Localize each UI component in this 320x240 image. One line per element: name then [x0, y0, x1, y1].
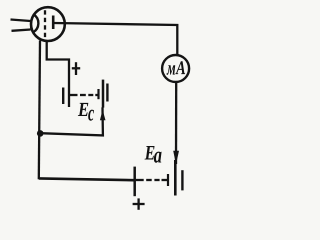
label Ea — [145, 146, 162, 163]
battery Ea tall plate — [174, 160, 177, 196]
return wire from Ec to cathode junction — [40, 107, 103, 135]
triode tube envelope — [31, 7, 65, 41]
battery Ea dash 2 — [154, 179, 159, 181]
milliammeter mA circle — [162, 55, 189, 82]
battery Ec stub left — [69, 94, 78, 96]
battery Ec dash 1 — [80, 94, 86, 96]
battery Ea medium plate — [181, 170, 183, 190]
plus sign near Ec battery — [72, 62, 80, 75]
battery Ea dash 1 — [146, 179, 152, 181]
filament lead upper — [11, 20, 31, 22]
battery Ec tick plate — [97, 89, 99, 99]
label Ec — [78, 103, 94, 121]
battery Ea stub right — [162, 179, 169, 181]
battery Ea left long plate — [133, 167, 136, 197]
battery Ec tall plate — [102, 80, 105, 108]
battery Ea stub left — [136, 179, 144, 181]
battery Ea tall plate upper continuation — [174, 160, 176, 164]
bottom wire to battery Ea — [39, 178, 134, 180]
current arrow (down) on anode wire — [173, 151, 179, 165]
label mA inside meter — [167, 61, 186, 75]
battery Ec dash 2 — [88, 94, 93, 96]
battery Ec short plate (left) — [62, 88, 64, 105]
cathode wire down — [39, 41, 40, 180]
battery Ec medium plate — [106, 84, 108, 102]
plus sign under Ea battery — [133, 198, 145, 209]
filament (cathode arc) — [33, 14, 39, 32]
filament lead lower — [12, 30, 31, 31]
battery Ea tick plate — [167, 174, 169, 186]
battery Ec stub right — [95, 94, 98, 96]
grid wire to battery Ec — [47, 42, 69, 108]
anode plate — [52, 16, 55, 30]
anode lead wire to top-right — [54, 23, 177, 54]
current arrow (up) on Ec return wire — [100, 110, 106, 120]
wire meter to battery Ea — [175, 83, 177, 164]
junction dot — [37, 130, 44, 137]
grid (dashed electrode) — [44, 10, 46, 41]
